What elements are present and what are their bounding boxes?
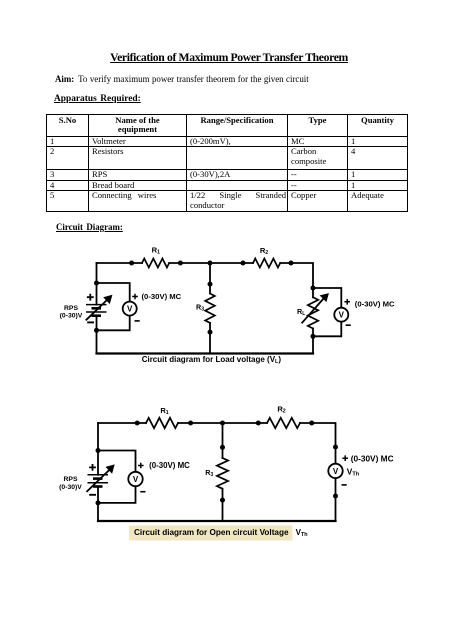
junction dot R1 left circuit1 (129, 261, 134, 266)
circuit diagram heading (56, 222, 123, 232)
plus sign RPS circuit2 (89, 464, 96, 471)
minus sign voltmeter V2 circuit1 (346, 324, 351, 326)
plus sign RPS circuit1 (87, 294, 94, 301)
battery RPS plates circuit2 (88, 475, 109, 487)
node junction RL top voltmeter tap circuit1 (311, 286, 316, 291)
node junction RL bottom voltmeter tap circuit1 (311, 334, 316, 339)
svg-text:RPS: RPS (64, 476, 78, 483)
apparatus table (46, 114, 408, 212)
resistor R1 zigzag (142, 259, 169, 268)
minus sign voltmeter V1 circuit1 (135, 320, 140, 322)
wire: voltmeter V1 loop bottom (97, 316, 130, 331)
svg-text:Circuit diagram for Open circu: Circuit diagram for Open circuit Voltage (134, 528, 289, 537)
svg-text:V: V (339, 311, 345, 320)
junction dot voltmeter Vth lower terminal circuit2 (333, 494, 338, 499)
svg-text:Circuit diagram for Load volta: Circuit diagram for Load voltage (VL) (142, 355, 282, 365)
resistor RL zigzag vertical (variable) (308, 297, 318, 328)
wire: voltmeter V1 loop top circuit2 (98, 451, 136, 472)
wire: circuit1 top rail segment middle (169, 262, 253, 264)
wire: R3 branch lower lead circuit2 (222, 489, 224, 521)
arrow of RPS circuit2 (87, 464, 115, 492)
junction dot R3 upper terminal circuit1 (208, 282, 213, 287)
wire: circuit1 top rail segment left (97, 262, 143, 264)
wire: circuit1 left rail lower (96, 316, 98, 354)
svg-text:(0-30V) MC: (0-30V) MC (355, 300, 395, 309)
apparatus heading (54, 94, 141, 104)
wire: voltmeter V2 loop bottom (313, 322, 341, 337)
svg-text:VTh: VTh (347, 466, 360, 477)
junction dot R2 left circuit2 (256, 421, 261, 426)
wire: voltmeter V1 loop top (97, 283, 130, 302)
junction dot R2 left circuit1 (241, 261, 246, 266)
node junction R3 top rail circuit1 (208, 261, 213, 266)
voltmeter V2 circuit1 (334, 308, 348, 322)
wire: circuit2 top rail segment left (98, 422, 146, 424)
wire: circuit2 top rail segment middle (178, 422, 267, 424)
svg-text:VTh: VTh (296, 528, 308, 538)
wire: circuit2 top rail segment right with corner down (300, 423, 336, 464)
aim line (55, 74, 395, 84)
minus sign RPS circuit2 (89, 494, 96, 496)
wire: circuit1 top rail segment right with corner down (280, 263, 313, 297)
svg-text:R3: R3 (196, 303, 204, 313)
svg-text:(0-30)V: (0-30)V (60, 312, 83, 319)
junction dot R1 right circuit2 (188, 421, 193, 426)
wire: circuit1 bottom rail (97, 352, 314, 354)
wire: circuit1 left rail upper (96, 263, 98, 305)
junction dot R3 upper terminal circuit2 (220, 445, 225, 450)
junction dot R3 lower terminal circuit1 (208, 330, 213, 335)
junction dot R1 left circuit2 (135, 421, 140, 426)
svg-text:V: V (133, 475, 139, 484)
svg-text:R1: R1 (160, 406, 168, 416)
svg-text:(0-30V) MC: (0-30V) MC (149, 461, 190, 470)
svg-text:(0-30V) MC: (0-30V) MC (142, 292, 182, 301)
caption circuit2 highlight (129, 526, 293, 541)
voltmeter V1 circuit1 (123, 302, 137, 316)
minus sign voltmeter V1 circuit2 (140, 491, 145, 493)
plus sign voltmeter Vth circuit2 (342, 455, 348, 461)
wire: circuit2 left rail upper (97, 423, 99, 475)
svg-text:R3: R3 (205, 468, 213, 478)
node junction voltmeter V1 top tap circuit2 (96, 448, 101, 453)
title (3, 51, 452, 64)
plus sign voltmeter V1 circuit2 (138, 463, 144, 469)
svg-text:RL: RL (297, 307, 305, 317)
svg-text:R1: R1 (152, 245, 160, 255)
wire: R3 branch upper lead (209, 263, 211, 294)
plus sign voltmeter V1 circuit1 (132, 294, 138, 300)
junction dot R2 right circuit2 (309, 421, 314, 426)
resistor R3 zigzag vertical circuit2 (217, 458, 228, 489)
svg-text:(0-30V) MC: (0-30V) MC (351, 454, 394, 464)
resistor R3 zigzag vertical (205, 294, 215, 323)
svg-text:R2: R2 (277, 404, 285, 414)
junction dot R2 right circuit1 (289, 261, 294, 266)
wire: circuit2 left rail lower (97, 487, 99, 522)
resistor R2 zigzag (253, 259, 280, 268)
node junction voltmeter V1 bottom tap circuit2 (96, 500, 101, 505)
svg-text:(0-30)V: (0-30)V (59, 484, 82, 491)
svg-text:V: V (127, 305, 133, 314)
wire: voltmeter V2 loop top (313, 288, 341, 308)
node junction voltmeter V1 top tap circuit1 (94, 281, 99, 286)
arrow of RL circuit1 (302, 293, 329, 323)
wire: R3 branch lower lead (209, 323, 211, 354)
wire: RL branch lower lead (312, 329, 314, 354)
node junction voltmeter V1 bottom tap circuit1 (94, 328, 99, 333)
plus sign voltmeter V2 circuit1 (344, 299, 350, 305)
node junction R3 top rail circuit2 (220, 421, 225, 426)
junction dot voltmeter Vth upper terminal circuit2 (333, 445, 338, 450)
arrow of RPS circuit1 (86, 295, 113, 321)
voltmeter Vth circuit2 (328, 464, 342, 478)
junction dot R3 lower terminal circuit2 (220, 498, 225, 503)
wire: voltmeter V1 loop bottom circuit2 (98, 486, 136, 503)
svg-text:V: V (333, 467, 339, 476)
voltmeter V1 circuit2 (128, 472, 142, 486)
minus sign RPS circuit1 (87, 321, 94, 323)
wire: circuit2 right branch lower (335, 478, 337, 521)
junction dot R1 right circuit1 (178, 261, 183, 266)
battery RPS plates circuit1 (86, 305, 107, 316)
wire: circuit2 bottom rail (98, 520, 336, 522)
minus sign voltmeter Vth circuit2 (342, 484, 347, 486)
resistor R2 zigzag circuit2 (267, 418, 300, 428)
wire: R3 branch upper lead circuit2 (222, 423, 224, 458)
svg-text:RPS: RPS (64, 305, 78, 312)
resistor R1 zigzag circuit2 (146, 418, 178, 428)
svg-text:R2: R2 (260, 246, 268, 256)
